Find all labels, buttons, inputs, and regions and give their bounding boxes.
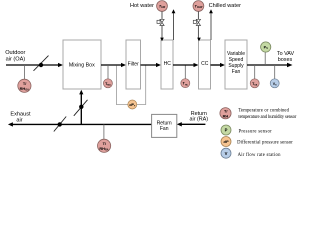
wire chilled water supply pipe <box>197 11 199 40</box>
wire chilled water return pipe <box>209 9 213 40</box>
node Exhaust air label <box>10 112 31 124</box>
valve V-CHW <box>193 19 200 25</box>
sensor T-SA <box>250 65 259 88</box>
node Outdoor air (OA) label <box>5 50 25 63</box>
svg-text:Chilled water: Chilled water <box>209 3 241 9</box>
sensor T-CHW <box>193 1 204 12</box>
wire recirculation riser to mixing box <box>79 90 83 125</box>
sensor T/RH-OA <box>18 65 31 92</box>
damper D-OA on outdoor duct <box>34 56 49 71</box>
sensor dP-F pressure taps across filter <box>116 66 145 105</box>
wire exhaust / return air duct <box>8 122 152 126</box>
svg-text:Mixing Box: Mixing Box <box>69 62 95 68</box>
sensor T/RH-RA <box>98 124 111 152</box>
junction arrow at HC inlet <box>160 38 164 42</box>
filter box <box>126 40 141 89</box>
variable speed supply fan box <box>225 40 247 89</box>
legend sensor T/RH symbol <box>220 108 231 119</box>
wire CC to supply fan <box>211 63 226 67</box>
svg-text:Filter: Filter <box>128 61 139 67</box>
svg-text:air (OA): air (OA) <box>6 57 26 63</box>
svg-text:boxes: boxes <box>278 57 293 63</box>
junction arrow at CC inlet <box>197 38 201 42</box>
svg-text:Fan: Fan <box>160 126 169 132</box>
wire HC to CC <box>173 63 199 67</box>
svg-text:temperature and humidity senso: temperature and humidity sensor <box>238 115 296 120</box>
mixing box <box>63 40 101 89</box>
svg-text:CC: CC <box>201 61 209 67</box>
heating coil HC box <box>161 40 173 89</box>
svg-text:dP: dP <box>223 139 228 144</box>
wire mixing box to filter <box>101 63 126 67</box>
legend sensor P symbol <box>221 125 231 135</box>
legend sensor V symbol <box>221 148 231 158</box>
svg-text:Pressure sensor: Pressure sensor <box>239 130 273 135</box>
svg-text:Differential pressure sensor: Differential pressure sensor <box>237 141 293 146</box>
legend text temperature sensor <box>238 108 296 120</box>
damper D-EA on exhaust duct <box>54 117 66 132</box>
svg-text:V: V <box>225 151 228 156</box>
wire supply fan to VAV boxes <box>247 63 293 68</box>
wire outdoor-air duct <box>6 63 63 67</box>
damper D-RA on riser <box>74 100 88 116</box>
legend sensor dP symbol <box>221 137 231 147</box>
wire hot water return pipe <box>172 9 176 40</box>
svg-text:Air flow rate station: Air flow rate station <box>238 153 282 158</box>
svg-text:HC: HC <box>164 61 172 67</box>
svg-text:Hot water: Hot water <box>130 3 154 9</box>
svg-text:Fan: Fan <box>232 69 241 75</box>
svg-text:RH: RH <box>223 113 229 118</box>
sensor T-MA <box>103 65 112 88</box>
svg-text:P: P <box>225 128 228 133</box>
sensor T-HC <box>181 65 190 88</box>
valve V-HW <box>157 19 164 25</box>
node To VAV boxes label <box>277 51 295 63</box>
wire filter to HC <box>141 63 162 67</box>
svg-text:air (RA): air (RA) <box>190 117 209 123</box>
node Return air (RA) label <box>190 111 209 123</box>
sensor P-S static pressure <box>261 42 271 65</box>
svg-text:Temperature or combined: Temperature or combined <box>238 108 289 113</box>
wire return air inlet to return fan <box>177 122 206 126</box>
sensor V-S airflow <box>270 65 279 88</box>
svg-text:air: air <box>16 117 22 123</box>
cooling coil CC box <box>199 40 211 89</box>
svg-text:Outdoor: Outdoor <box>5 50 25 56</box>
wire hot water supply pipe <box>161 11 163 40</box>
sensor T-HW <box>157 1 168 12</box>
return fan box <box>152 114 177 137</box>
sensor dP-F <box>128 100 137 109</box>
